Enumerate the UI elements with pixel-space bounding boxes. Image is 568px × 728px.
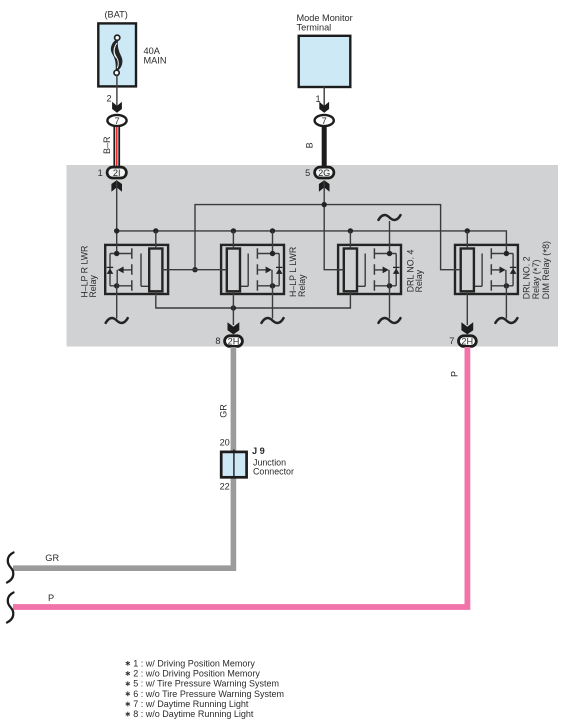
footnote 5 (126, 681, 130, 686)
svg-text:GR: GR (45, 553, 59, 563)
svg-text:(BAT): (BAT) (105, 9, 128, 19)
junction dot relay2 coil bottom (231, 305, 236, 310)
svg-text:5 : w/ Tire Pressure Warning S: 5 : w/ Tire Pressure Warning System (133, 679, 279, 689)
wire fuse to connector (116, 75, 118, 108)
wire B-R striped (113, 127, 120, 167)
connector oval 2G (315, 167, 334, 178)
footnote 2 (126, 671, 130, 676)
relay R4 DRL NO.2 (mirrored) (454, 244, 518, 296)
arrow up below 2I (111, 180, 122, 192)
svg-text:1: 1 (98, 168, 103, 178)
svg-text:B: B (304, 142, 314, 148)
wire relay1 coil top (155, 231, 157, 245)
svg-text:Relay: Relay (88, 275, 98, 298)
squiggle below relay3 (379, 318, 401, 323)
relay R2 H-LP L LWR (mirrored) (220, 244, 284, 296)
bus line B (power rail) (117, 231, 507, 244)
svg-text:P: P (450, 371, 460, 377)
junction dot line A drop on coil link (192, 267, 197, 272)
svg-text:MAIN: MAIN (144, 56, 167, 66)
fusible link box 40A MAIN (98, 23, 136, 86)
connector oval 2H (left) (225, 336, 243, 347)
connector oval 7 (left) (107, 115, 126, 126)
svg-text:7: 7 (449, 336, 454, 346)
wire relay4 mosfet source to squiggle (505, 295, 507, 318)
wire break squiggle P left end (7, 593, 14, 623)
connector oval 7 (right) (315, 115, 334, 126)
svg-text:GR: GR (219, 404, 229, 418)
wire relay3 mosfet source to squiggle (389, 295, 391, 318)
arrow down into connector 7 (112, 102, 122, 113)
wire relay2 mosfet drain (272, 231, 274, 245)
svg-text:2 : w/o Driving Position Memor: 2 : w/o Driving Position Memory (133, 669, 260, 679)
svg-text:6 : w/o Tire Pressure Warning: 6 : w/o Tire Pressure Warning System (133, 689, 284, 699)
arrow down into 2H (left) (228, 322, 240, 334)
svg-text:Terminal: Terminal (297, 23, 332, 33)
connector oval 2H (right) (459, 336, 477, 347)
bottom link line D relay1/relay3 coils (156, 295, 351, 308)
footnote 6 (126, 691, 130, 696)
svg-text:7 : w/ Daytime Running Light: 7 : w/ Daytime Running Light (133, 699, 249, 709)
squiggle below relay1 (106, 318, 128, 323)
wire relay2 coil bottom to 2H (232, 295, 234, 325)
svg-text:1 : w/ Driving Position Memory: 1 : w/ Driving Position Memory (133, 658, 255, 668)
wire relay2 mosfet source to squiggle (272, 295, 274, 318)
svg-text:Connector: Connector (253, 467, 294, 477)
svg-text:5: 5 (305, 168, 310, 178)
svg-text:J 9: J 9 (252, 446, 265, 456)
svg-text:2H: 2H (461, 337, 473, 347)
svg-text:8 : w/o Daytime Running Light: 8 : w/o Daytime Running Light (133, 709, 254, 719)
footnote 8 (126, 712, 130, 717)
svg-text:P: P (48, 593, 54, 603)
arrow down into connector 7 (319, 102, 329, 113)
wire GR vertical + lower run (13, 347, 233, 568)
wire relay3 coil top (349, 231, 351, 245)
gray relay panel background (67, 165, 559, 347)
fusible link symbol (112, 35, 122, 75)
svg-text:2H: 2H (228, 337, 240, 347)
wire terminal to connector (323, 87, 325, 109)
svg-text:7: 7 (114, 116, 119, 126)
junction dot 2G on line A (322, 202, 327, 207)
wire 2G down to coil of DRL NO.4 relay (324, 181, 344, 270)
svg-text:Relay: Relay (414, 269, 424, 292)
bus line A (upper) (195, 205, 454, 270)
footnote 1 (126, 661, 130, 666)
arrow up below 2G (319, 180, 330, 192)
svg-text:40A: 40A (144, 46, 161, 56)
wire 2I down to bus (116, 181, 118, 244)
svg-text:B–R: B–R (102, 136, 112, 154)
svg-text:DRL NO. 2: DRL NO. 2 (522, 256, 532, 299)
footnote 7 (126, 702, 130, 707)
svg-text:2I: 2I (113, 168, 121, 178)
relay R1 H-LP R LWR (105, 244, 169, 296)
relay R3 DRL NO.4 (mirrored) (337, 244, 401, 296)
wire relay4 coil bottom to 2H (466, 295, 468, 325)
junction connector J9 (221, 452, 246, 477)
connector oval 2I (107, 167, 126, 178)
svg-text:2: 2 (106, 93, 111, 103)
svg-text:2G: 2G (318, 168, 330, 178)
wire break squiggle GR left end (7, 553, 14, 583)
wire relay2 coil top (232, 231, 234, 245)
svg-text:20: 20 (220, 437, 230, 447)
Mode Monitor Terminal box (299, 36, 351, 87)
svg-text:22: 22 (220, 481, 230, 491)
wire relay4 coil top (466, 231, 468, 245)
squiggle below relay2 (262, 318, 284, 323)
wire relay1 mosfet source to squiggle (116, 295, 118, 318)
svg-text:8: 8 (215, 336, 220, 346)
svg-text:Relay: Relay (297, 274, 307, 297)
junction dots on line B (114, 228, 119, 233)
wire P vertical + lower run (13, 347, 467, 607)
coil link wire relay1-relay2 (162, 269, 227, 271)
wire B solid black (322, 127, 327, 167)
svg-text:7: 7 (322, 116, 327, 126)
squiggle above relay3 and its drain wire (389, 221, 391, 245)
squiggle below relay4 (495, 318, 517, 323)
arrow down into 2H (right) (461, 322, 473, 334)
